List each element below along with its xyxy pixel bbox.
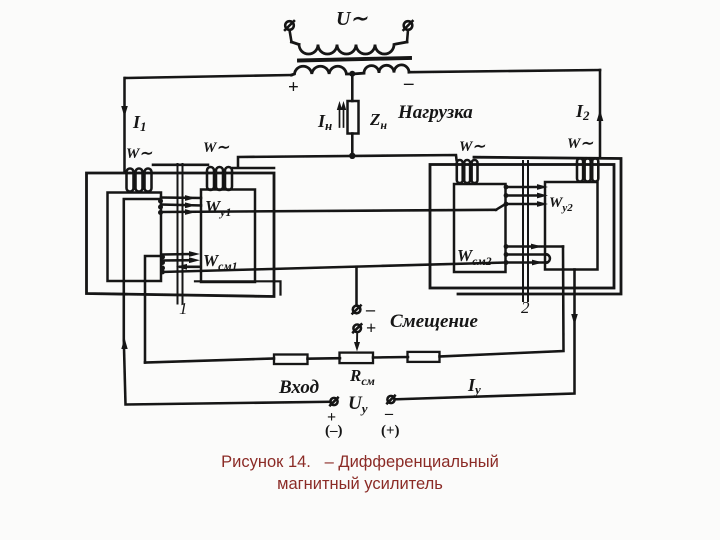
wire: right block down to Uy - terminal [395, 270, 575, 400]
core 1 outer frame A [87, 173, 275, 297]
svg-text:Wсм1: Wсм1 [203, 251, 238, 273]
svg-text:Wу1: Wу1 [205, 197, 231, 219]
Uy terminal - (right) [387, 396, 395, 404]
svg-text:2: 2 [521, 298, 530, 317]
wire: Wsm long link to right block [160, 263, 505, 275]
node: load junction [349, 153, 355, 159]
bias terminal - [353, 306, 361, 314]
bias winding Wsm1 lines [160, 251, 200, 270]
wire: Wsm2 down to resistor chain [440, 247, 564, 357]
svg-text:Iн: Iн [317, 111, 332, 133]
core 1 inner window left [108, 193, 162, 282]
wire: secondary + lead to left drop [125, 75, 292, 78]
control winding Wy2 lines [496, 184, 548, 210]
Uy terminal + (left) [330, 398, 338, 406]
resistor input (left box) [274, 355, 308, 365]
wire: load bus between blocks [238, 155, 457, 167]
core 1 inner window right [201, 190, 255, 283]
core 2 inner window left [454, 184, 506, 272]
transformer T1 primary terminal left [285, 21, 294, 42]
winding W~ right block left coil [457, 160, 478, 183]
wire [373, 356, 408, 359]
svg-text:+: + [366, 318, 376, 338]
svg-text:Iу: Iу [467, 375, 481, 397]
svg-text:W∼: W∼ [459, 139, 485, 155]
node: secondary centre tap [349, 71, 355, 77]
core 2 inner window right [545, 182, 598, 270]
current arrows In [337, 101, 346, 127]
core 2 centre limb lines [522, 161, 524, 301]
transformer T1 secondary winding [292, 65, 410, 75]
svg-text:W∼: W∼ [203, 140, 229, 156]
wire: coil1 to coil2 [153, 164, 208, 167]
wire: right vertical drop I2 [599, 70, 602, 158]
caption line 1 [0, 453, 720, 472]
winding W~ left block right coil [207, 167, 232, 190]
svg-text:Wсм2: Wсм2 [457, 246, 492, 268]
svg-text:Zн: Zн [369, 110, 387, 132]
svg-text:W∼: W∼ [126, 146, 152, 162]
caption line 2 [0, 475, 720, 494]
transformer T1 core [299, 58, 410, 61]
svg-text:+: + [288, 77, 299, 98]
wire: left vertical drop I1 [123, 78, 126, 171]
svg-text:(–): (–) [325, 423, 343, 439]
wire: secondary - lead to right drop [409, 70, 600, 72]
control winding Wy1 lines [158, 195, 201, 209]
svg-text:1: 1 [179, 299, 188, 318]
svg-text:Нагрузка: Нагрузка [397, 102, 473, 123]
wire: Wsm1 feed down [145, 256, 162, 363]
svg-text:W∼: W∼ [567, 136, 593, 152]
resistor Rsm (centre box) [340, 353, 374, 364]
transformer T1 primary terminal right [404, 21, 413, 42]
bias terminal + [353, 324, 361, 332]
transformer T1 primary winding [292, 42, 408, 54]
wire: load to junction [351, 134, 354, 157]
core 1 bottom edge extension [195, 281, 281, 294]
bias winding Wsm2 lines [504, 244, 563, 266]
svg-text:(+): (+) [381, 423, 400, 439]
resistor right box [408, 352, 440, 362]
winding W~ right block right coil [577, 159, 598, 182]
svg-text:–: – [365, 299, 376, 319]
wire: control feed from Wy1 down-left [124, 199, 161, 340]
wire: left block to input resistor [145, 359, 274, 363]
svg-text:I1: I1 [132, 112, 147, 134]
wire: Wy1 long link to right block [158, 209, 496, 215]
svg-text:U∼: U∼ [336, 8, 368, 30]
arrow I2 up [597, 110, 604, 121]
wire: bias + into Rsm wiper [356, 332, 358, 343]
svg-text:I2: I2 [575, 101, 590, 123]
winding W~ left block left coil [127, 169, 152, 192]
core 1 centre limb lines [177, 164, 179, 304]
arrow I1 down [121, 106, 128, 117]
core 2 outer frame B top edge [458, 157, 621, 294]
wire: centre tap to load [351, 74, 354, 101]
svg-text:Смещение: Смещение [390, 311, 478, 332]
wire: left block to Uy + terminal [124, 340, 331, 405]
arrow Iy up (left) [121, 338, 127, 349]
load resistor Zn [348, 101, 359, 134]
wire: bias tap down from Wsm link [355, 267, 358, 306]
svg-text:–: – [384, 405, 394, 422]
core 1 outer frame B [233, 167, 274, 170]
svg-text:Wу2: Wу2 [549, 195, 573, 214]
svg-text:Вход: Вход [278, 377, 319, 398]
core 2 outer frame A [430, 165, 614, 289]
svg-text:Rсм: Rсм [349, 366, 375, 388]
svg-text:Uу: Uу [348, 393, 368, 416]
arrow Iy down (right) [571, 314, 578, 325]
svg-text:–: – [403, 73, 414, 94]
wire [308, 357, 341, 360]
